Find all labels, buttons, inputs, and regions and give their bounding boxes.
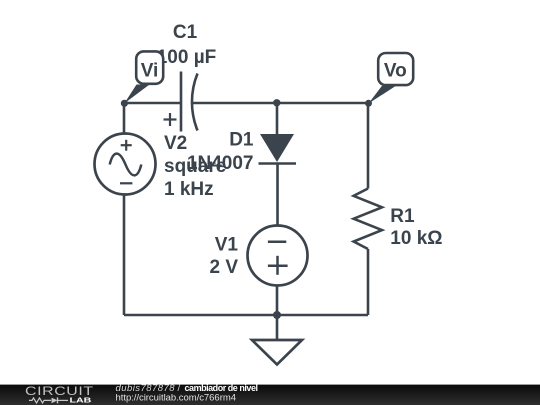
wire Vo node down to resistor	[367, 103, 370, 189]
svg-text:Vi: Vi	[141, 60, 159, 81]
svg-text:D1: D1	[229, 130, 254, 151]
footer bar	[0, 385, 540, 405]
svg-text:100 µF: 100 µF	[157, 47, 217, 68]
svg-text:C1: C1	[173, 22, 198, 43]
net flag Vo	[369, 53, 414, 104]
svg-text:http://circuitlab.com/c766rm4: http://circuitlab.com/c766rm4	[116, 392, 237, 403]
diode D1	[259, 134, 297, 164]
source V2	[95, 134, 156, 195]
wire resistor to bottom corner	[367, 249, 370, 315]
wire Vi node to V2 top	[123, 103, 126, 134]
resistor R1	[354, 189, 382, 250]
svg-text:1 kHz: 1 kHz	[164, 179, 214, 200]
wire top left segment	[124, 102, 181, 105]
wire V1 bottom to junction	[276, 286, 279, 316]
node at diode junction	[273, 99, 280, 106]
svg-text:LAB: LAB	[70, 396, 92, 404]
node at Vo	[365, 100, 372, 107]
logo mini schematic wire and resistor	[29, 398, 51, 403]
wire top right segment	[193, 102, 369, 105]
svg-text:V2: V2	[164, 133, 187, 154]
svg-text:2 V: 2 V	[209, 257, 238, 278]
source V1	[248, 226, 308, 286]
net flag Vi	[124, 51, 163, 103]
svg-text:Vo: Vo	[384, 60, 407, 81]
svg-text:10 kΩ: 10 kΩ	[390, 228, 442, 249]
wire diode to V1 top	[276, 164, 279, 227]
wire junction to ground	[276, 315, 279, 340]
wire V2 bottom to corner	[123, 194, 126, 315]
svg-text:R1: R1	[390, 206, 415, 227]
node at ground junction	[273, 311, 281, 319]
ground	[252, 340, 302, 365]
capacitor C1	[164, 72, 198, 132]
wire top node to diode	[276, 103, 279, 134]
node at Vi	[121, 100, 128, 107]
logo mini diode	[52, 398, 58, 404]
svg-text:V1: V1	[215, 234, 239, 255]
wire bottom	[124, 314, 368, 317]
svg-text:1N4007: 1N4007	[187, 153, 254, 174]
